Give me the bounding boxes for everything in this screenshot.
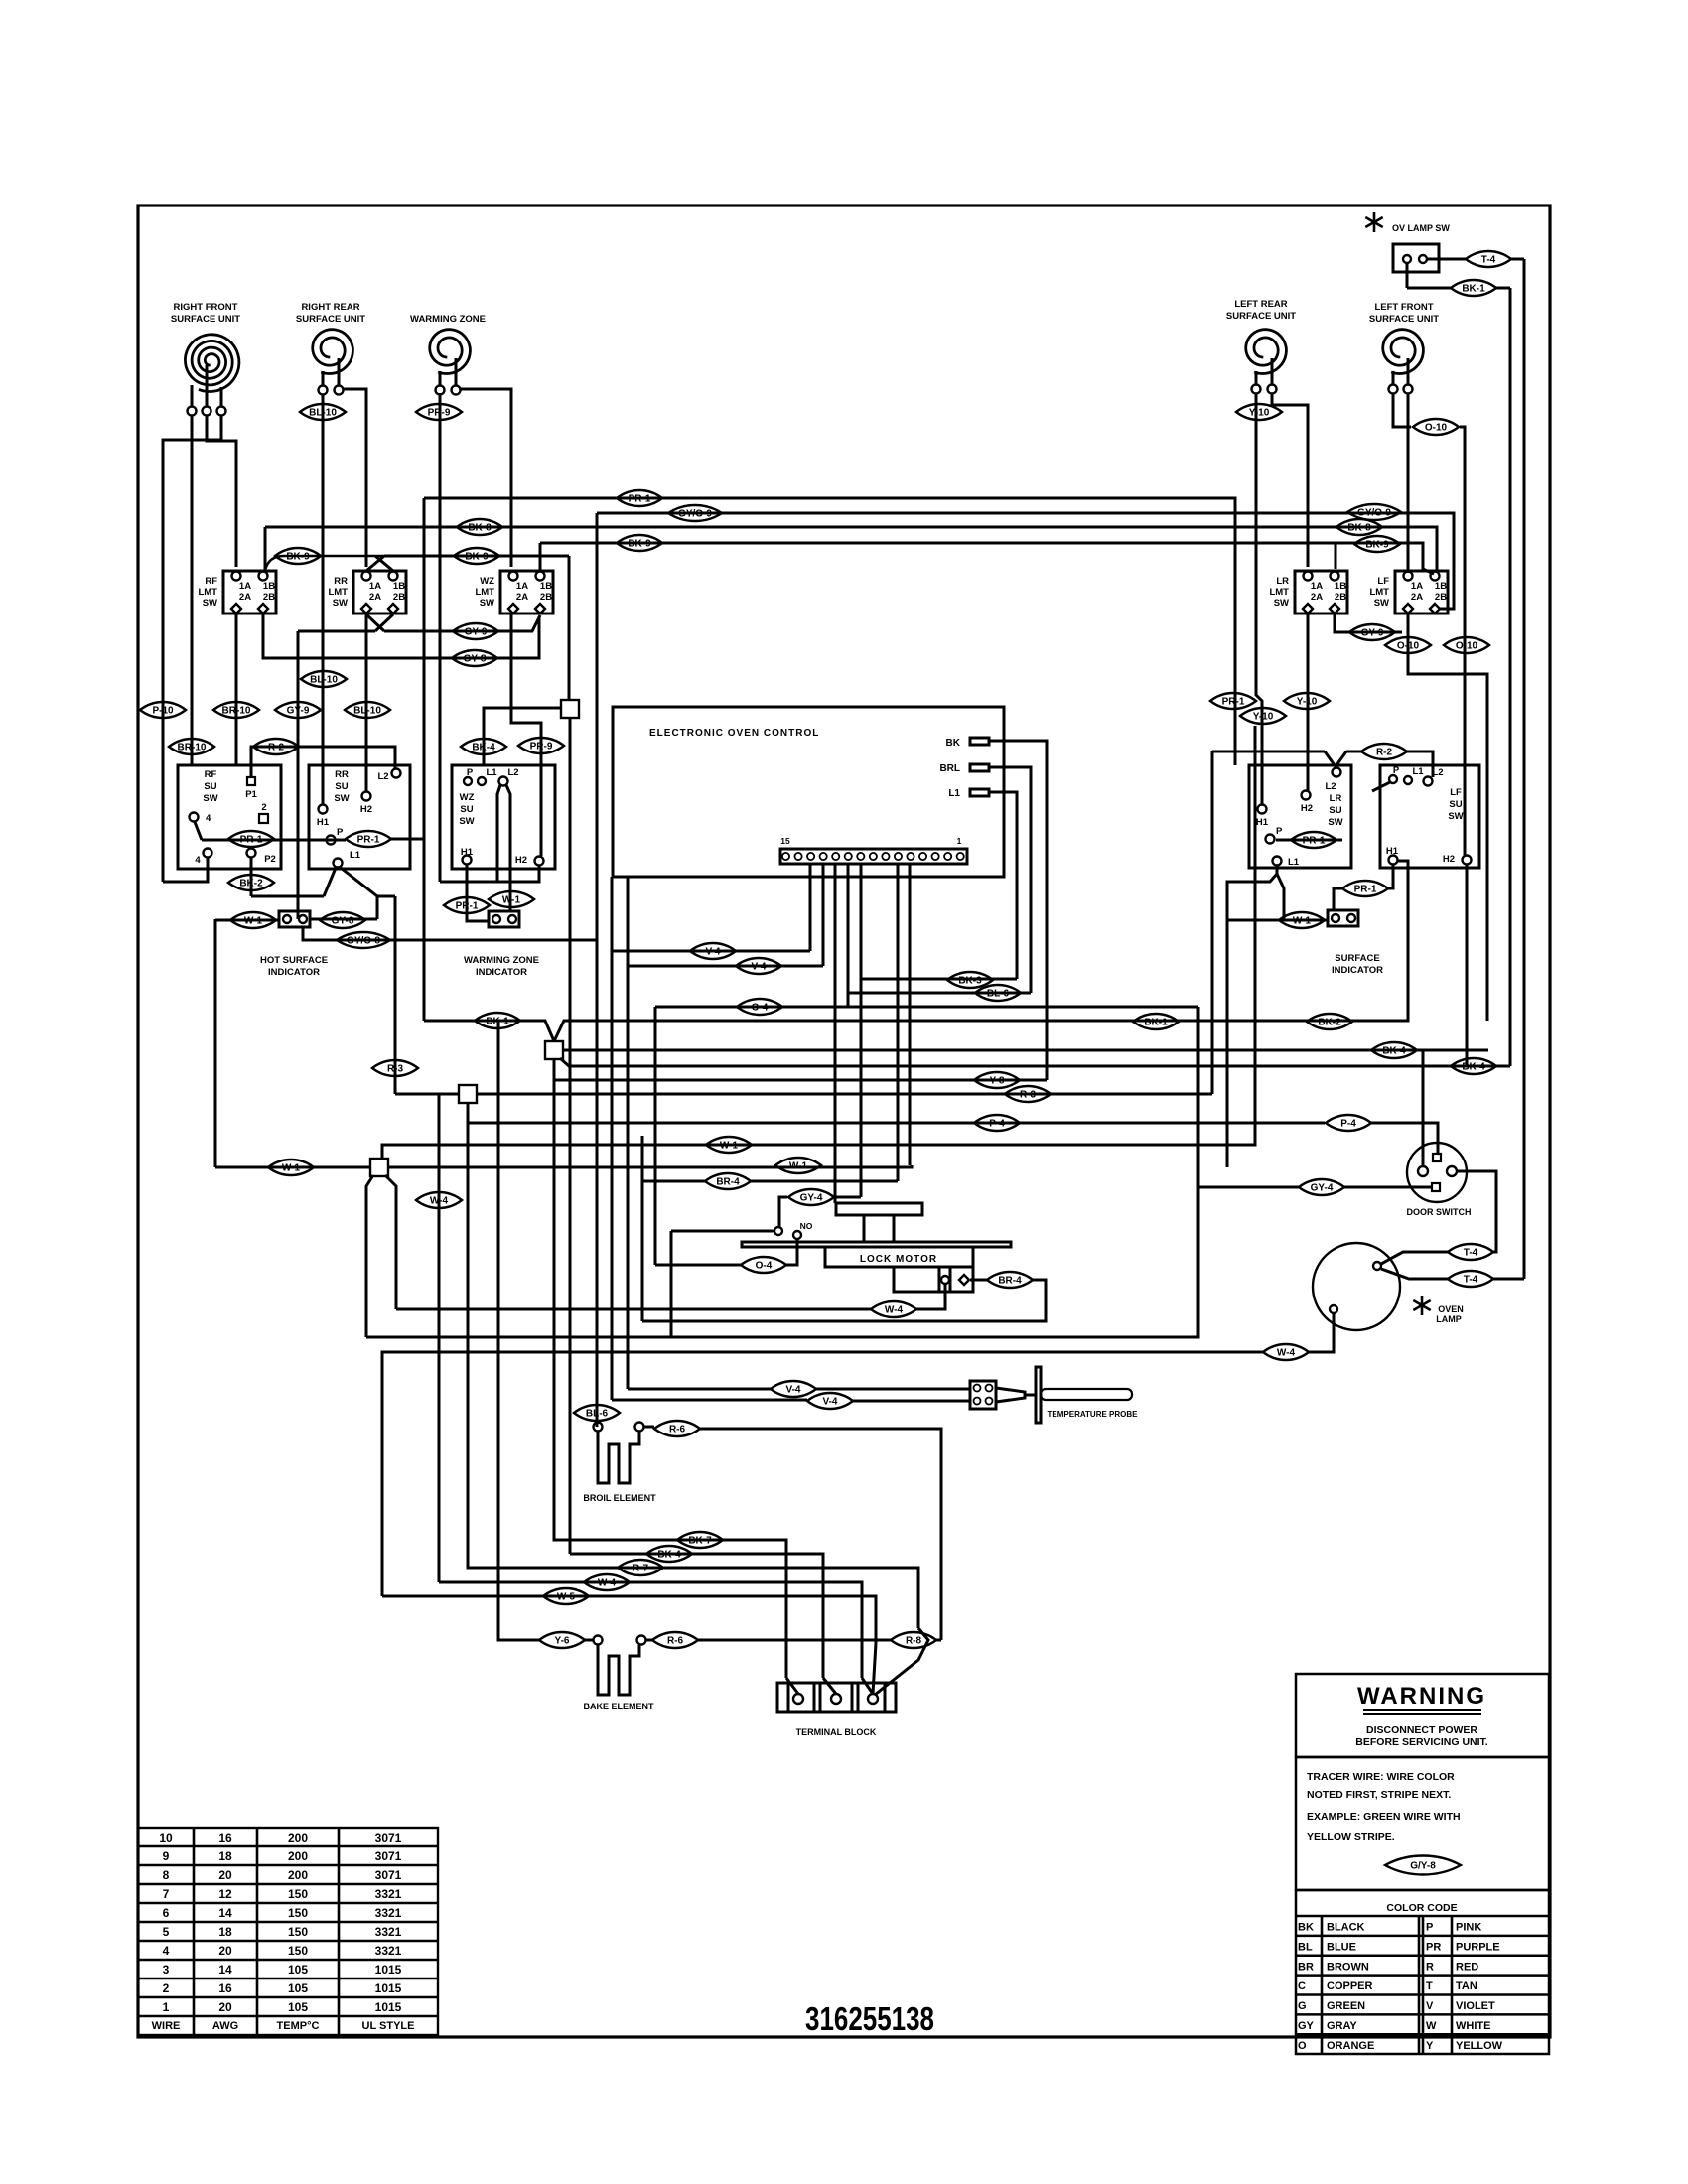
wire Y-6 row to bake element [498,1021,539,1640]
svg-text:BK-4: BK-4 [1462,1062,1485,1073]
svg-text:OVEN: OVEN [1438,1304,1464,1314]
switch OV LAMP SW [1373,212,1376,232]
svg-text:150: 150 [288,1887,308,1901]
wire W-1 to LF connector [1227,919,1328,922]
svg-text:T-4: T-4 [1464,1248,1478,1259]
bake element [598,1645,639,1695]
wire BR-10 lower label [169,739,214,754]
svg-text:BK: BK [946,738,961,749]
wire GY-9 between RR and WZ LMT [298,630,375,633]
svg-text:3321: 3321 [375,1906,402,1920]
svg-text:O: O [1298,2040,1307,2052]
svg-text:T-4: T-4 [1481,255,1496,266]
wire W-1 long row [215,1166,370,1169]
svg-text:L1: L1 [1288,857,1300,868]
svg-text:PR-1: PR-1 [629,494,651,505]
svg-text:W-1: W-1 [244,916,263,927]
svg-text:H2: H2 [360,804,372,815]
svg-text:NO: NO [800,1221,813,1231]
wire R-7 row [468,1103,918,1628]
svg-text:2B: 2B [1335,592,1346,603]
svg-text:BROWN: BROWN [1327,1961,1369,1973]
wire BK-1 row right [554,861,1408,1041]
svg-text:ORANGE: ORANGE [1327,2040,1374,2052]
svg-text:6: 6 [163,1906,170,1920]
svg-text:L2: L2 [1325,781,1336,792]
node junction C [459,1085,477,1103]
wire GY/O-9 long run [597,513,1454,609]
svg-text:COLOR CODE: COLOR CODE [1386,1902,1457,1914]
wire fork from WZ L2 [497,785,500,882]
svg-text:GY-9: GY-9 [287,706,310,717]
svg-text:R-6: R-6 [669,1425,686,1435]
svg-text:BL-6: BL-6 [987,989,1010,1000]
svg-text:COPPER: COPPER [1327,1980,1373,1992]
svg-text:1A: 1A [1411,581,1423,592]
svg-text:BK-7: BK-7 [688,1536,712,1547]
svg-text:AWG: AWG [212,2020,238,2032]
svg-text:SU: SU [335,781,348,792]
svg-text:SW: SW [334,793,349,804]
svg-text:BR: BR [1298,1961,1314,1973]
svg-text:150: 150 [288,1925,308,1939]
svg-text:GRAY: GRAY [1327,2020,1357,2032]
wire GY-4 row [835,1196,861,1199]
wire BK-9 run from RF LMT 1B [265,556,384,571]
svg-text:RIGHT REAR: RIGHT REAR [301,302,359,313]
wire BRL from EOC [989,767,1031,993]
svg-text:BL-10: BL-10 [310,675,338,686]
svg-text:GY/O-8: GY/O-8 [347,936,380,947]
svg-text:OV LAMP SW: OV LAMP SW [1392,223,1450,233]
svg-text:SU: SU [460,804,473,815]
svg-text:14: 14 [218,1963,232,1977]
svg-text:G/Y-8: G/Y-8 [1410,1861,1436,1872]
svg-text:P: P [1426,1922,1433,1934]
svg-text:WARMING ZONE: WARMING ZONE [464,955,539,966]
svg-text:P: P [337,827,344,838]
svg-text:P: P [467,767,474,778]
svg-text:P2: P2 [264,854,276,865]
svg-text:BLACK: BLACK [1327,1922,1365,1934]
svg-text:LEFT FRONT: LEFT FRONT [1374,302,1433,313]
svg-text:150: 150 [288,1944,308,1958]
svg-text:H1: H1 [1256,817,1269,828]
wire PR-9 label at WZ [518,738,564,753]
svg-text:BL-6: BL-6 [586,1409,609,1420]
svg-text:LR: LR [1330,793,1342,804]
svg-text:3321: 3321 [375,1944,402,1958]
wire BK from EOC [989,741,1047,1080]
svg-text:SW: SW [459,816,474,827]
svg-text:GY-8: GY-8 [332,916,354,927]
svg-text:L2: L2 [1432,767,1443,778]
svg-text:R-3: R-3 [1020,1090,1037,1101]
svg-text:10: 10 [159,1831,173,1844]
svg-text:1015: 1015 [375,1981,402,1995]
svg-text:W: W [1426,2020,1437,2032]
wire P-10 label [140,702,186,718]
svg-text:WZ: WZ [480,576,494,587]
wire V-4 columns down to probe rows [611,951,614,1400]
svg-text:W-5: W-5 [557,1592,576,1603]
wire from WZ LMT 2A to PR-9 column [511,614,541,856]
svg-text:20: 20 [218,2000,232,2014]
wire from RR unit right terminal to RR LMT 1A [343,389,366,567]
wire BK-4 to warming zone ind [461,739,506,754]
svg-text:BRL: BRL [939,763,960,774]
wire GY-4 long run via bottom [366,1187,1198,1337]
svg-text:BL-10: BL-10 [309,408,337,419]
svg-text:W-1: W-1 [1293,916,1312,927]
svg-text:BR-4: BR-4 [998,1276,1022,1287]
svg-text:LMT: LMT [1269,587,1289,598]
svg-text:2A: 2A [516,592,528,603]
wire W-1 to hot surface connector [215,919,279,922]
wire H1 H2 RR verticals [322,765,325,804]
svg-text:1A: 1A [369,581,381,592]
svg-text:P1: P1 [245,789,257,800]
svg-text:1B: 1B [1335,581,1346,592]
node junction A [568,556,571,701]
svg-text:SW: SW [1448,811,1463,822]
svg-text:UL STYLE: UL STYLE [362,2020,415,2032]
svg-text:9: 9 [163,1849,170,1863]
svg-text:BK-1: BK-1 [1144,1018,1168,1028]
switch WZ SU SW [452,765,555,869]
svg-text:DOOR SWITCH: DOOR SWITCH [1407,1207,1472,1217]
svg-text:LMT: LMT [1369,587,1389,598]
svg-text:O-10: O-10 [1456,641,1478,652]
wire BK-4 row lower [570,1554,823,1678]
svg-text:V: V [1426,2000,1434,2012]
wire T-4 from OV LAMP SW [1427,258,1466,261]
wire R-3 row [395,1093,459,1096]
svg-text:Y: Y [1426,2040,1434,2052]
svg-text:YELLOW STRIPE.: YELLOW STRIPE. [1307,1831,1395,1843]
wire GY-9 right between LR and LF LMT [1335,614,1402,632]
svg-text:3321: 3321 [375,1925,402,1939]
wire BL-10 from RR unit [322,394,325,804]
wire BK-2 from RF SU SW P2 [250,857,253,896]
svg-text:1015: 1015 [375,1963,402,1977]
svg-text:14: 14 [218,1906,232,1920]
svg-text:BL-10: BL-10 [353,706,381,717]
svg-text:BK-2: BK-2 [239,879,263,889]
wire crossing at RR LMT SW top [375,556,393,571]
svg-text:BK-4: BK-4 [1382,1046,1406,1057]
svg-text:LR: LR [1276,576,1289,587]
svg-text:BROIL ELEMENT: BROIL ELEMENT [583,1493,656,1503]
svg-text:4: 4 [195,855,201,866]
svg-text:L1: L1 [486,767,497,778]
svg-text:T: T [1426,1980,1433,1992]
svg-text:V-4: V-4 [822,1397,837,1408]
svg-text:RED: RED [1456,1961,1478,1973]
svg-text:RR: RR [334,576,348,587]
svg-text:PR-1: PR-1 [1222,697,1245,708]
svg-text:8: 8 [163,1868,170,1882]
lock motor switch [774,1227,782,1235]
wire V-4 row 2 [628,877,823,966]
svg-text:BK-9: BK-9 [628,539,651,550]
wire T-4 lower [1448,1271,1493,1287]
svg-text:WZ: WZ [460,792,475,803]
svg-text:Y-6: Y-6 [554,1636,569,1647]
wire V-4 rows to temperature probe [628,1388,771,1391]
svg-text:2A: 2A [239,592,251,603]
svg-text:BL: BL [1298,1941,1313,1953]
wire W-4 from oven lamp [1309,1313,1334,1352]
switch LR SU SW [1249,765,1351,868]
svg-text:SU: SU [1329,805,1341,816]
svg-text:O-10: O-10 [1397,641,1420,652]
svg-text:4: 4 [163,1944,170,1958]
svg-text:SU: SU [204,781,216,792]
svg-text:1A: 1A [239,581,251,592]
svg-text:L1: L1 [1412,766,1424,777]
svg-text:P-4: P-4 [1340,1119,1356,1130]
svg-text:1A: 1A [516,581,528,592]
lock motor [836,1203,922,1215]
limit switch LR LMT SW [1295,571,1347,614]
wire W-5 row [382,1596,876,1643]
svg-text:V-4: V-4 [751,962,766,973]
svg-text:P: P [1393,765,1400,776]
wire PR-1 from LR P [1276,839,1342,842]
svg-text:BK-9: BK-9 [1365,540,1389,551]
svg-text:TERMINAL BLOCK: TERMINAL BLOCK [796,1727,877,1737]
wire BK-4 row to door switch [563,1049,1488,1052]
svg-text:105: 105 [288,2000,308,2014]
wire BL-6 to broil element [574,1405,620,1421]
svg-text:PR-1: PR-1 [357,835,380,846]
svg-text:R-2: R-2 [268,743,285,753]
svg-text:C: C [1298,1980,1306,1992]
svg-text:TEMPERATURE PROBE: TEMPERATURE PROBE [1048,1410,1139,1419]
svg-text:GREEN: GREEN [1327,2000,1365,2012]
svg-text:GY/O-9: GY/O-9 [1357,508,1391,519]
wire to lock switch common [671,1230,774,1233]
svg-text:2B: 2B [263,592,275,603]
svg-text:1B: 1B [263,581,275,592]
wire R-3 vertical from RR SU [394,896,397,1094]
svg-text:L2: L2 [377,771,388,782]
svg-text:GY-4: GY-4 [1311,1183,1334,1194]
svg-text:BK-2: BK-2 [1318,1018,1341,1028]
wire BK-7 row [554,1059,786,1678]
svg-text:GY-8: GY-8 [464,654,487,665]
svg-text:3: 3 [163,1963,170,1977]
wire R-2 right run [1212,751,1325,753]
svg-text:VIOLET: VIOLET [1456,2000,1495,2012]
svg-text:105: 105 [288,1981,308,1995]
svg-text:2: 2 [261,802,266,813]
wire from LF SU H2 down [1466,865,1469,1066]
svg-text:PR-1: PR-1 [240,835,263,846]
svg-text:BK-8: BK-8 [468,523,492,534]
svg-text:NOTED FIRST, STRIPE NEXT.: NOTED FIRST, STRIPE NEXT. [1307,1789,1451,1801]
svg-text:GY: GY [1298,2020,1315,2032]
node junction D [370,1159,388,1176]
wire from WZ unit right terminal to WZ LMT 1A [460,389,511,567]
wire PR-1 long run [424,498,1235,765]
wire L1 from EOC [989,792,1017,979]
svg-text:W-4: W-4 [1277,1348,1296,1359]
broil element [598,1432,639,1483]
svg-text:WARNING: WARNING [1357,1683,1486,1709]
wire from WZ H2 down to fork [440,865,539,882]
svg-text:R-8: R-8 [906,1636,922,1647]
node junction B [545,1041,563,1059]
svg-text:YELLOW: YELLOW [1456,2040,1503,2052]
svg-text:2B: 2B [1435,592,1447,603]
svg-text:SURFACE: SURFACE [1335,953,1379,964]
svg-text:7: 7 [163,1887,170,1901]
svg-text:V-4: V-4 [705,947,720,958]
wire W-4 row lower [439,1582,862,1678]
svg-text:Y-10: Y-10 [1253,712,1274,723]
indicator lamp connector WZ [489,911,519,927]
svg-text:LF: LF [1377,576,1389,587]
svg-text:INDICATOR: INDICATOR [476,967,527,978]
svg-text:BR-4: BR-4 [716,1177,740,1188]
svg-text:W-1: W-1 [720,1141,739,1152]
wire O-10 from LF unit left terminal to LF SU H2 [1393,393,1411,427]
wire R-2 from P1 [251,747,395,777]
svg-text:5: 5 [163,1925,170,1939]
svg-text:12: 12 [218,1887,232,1901]
svg-text:PR-1: PR-1 [1354,885,1377,895]
svg-text:BAKE ELEMENT: BAKE ELEMENT [583,1702,654,1711]
svg-text:BLUE: BLUE [1327,1941,1356,1953]
wire PR-1 from RF SU SW [202,839,346,842]
warning box [1296,1674,1549,1757]
wire BK-1 row left [424,1021,554,1041]
wire BR-4 from lock motor [970,1279,987,1282]
svg-text:PINK: PINK [1456,1922,1481,1934]
svg-text:200: 200 [288,1868,308,1882]
svg-text:W-1: W-1 [502,895,521,906]
svg-text:TAN: TAN [1456,1980,1477,1992]
svg-text:SURFACE UNIT: SURFACE UNIT [1226,311,1296,322]
svg-text:SURFACE UNIT: SURFACE UNIT [296,314,365,325]
limit switch RR LMT SW [353,571,406,614]
wire O-10 under LF LMT 2A [1408,614,1487,1021]
svg-text:16: 16 [218,1831,232,1844]
svg-text:2: 2 [163,1981,170,1995]
wire GY-8 from hot surface connector [310,918,377,921]
svg-text:Y-10: Y-10 [1249,408,1270,419]
svg-text:H1: H1 [461,847,474,858]
svg-text:3071: 3071 [375,1868,402,1882]
terminal block [777,1683,896,1712]
svg-text:R-2: R-2 [1376,748,1393,758]
svg-text:W-4: W-4 [598,1578,617,1589]
svg-text:BR-10: BR-10 [222,706,251,717]
svg-text:O-4: O-4 [756,1261,773,1272]
wire BL-6 row [848,992,1031,995]
svg-text:H2: H2 [1301,803,1313,814]
svg-text:EXAMPLE: GREEN WIRE WITH: EXAMPLE: GREEN WIRE WITH [1307,1811,1461,1823]
wire PR-9 from WZ unit [439,393,442,882]
wire P-4 row [468,1103,1325,1123]
svg-text:BK-9: BK-9 [465,552,489,563]
switch RF SU SW [178,765,281,869]
svg-text:Y-10: Y-10 [1297,697,1318,708]
svg-text:H2: H2 [1443,854,1455,865]
svg-text:316255138: 316255138 [805,2000,934,2037]
wire PR-1 from WZ H1 [466,865,469,913]
svg-text:ELECTRONIC OVEN CONTROL: ELECTRONIC OVEN CONTROL [649,728,819,739]
svg-text:SW: SW [203,598,217,609]
wire GY-9 label [275,702,321,718]
wire GY-4 to door switch [1198,1186,1299,1189]
svg-text:3071: 3071 [375,1849,402,1863]
wire from LF unit right terminal to LF LMT [1407,393,1410,573]
wire BK-1 from OV LAMP SW [1406,263,1409,288]
svg-text:L1: L1 [350,850,361,861]
svg-text:2A: 2A [369,592,381,603]
svg-text:O-10: O-10 [1425,423,1448,434]
wire BR-4 row [642,1180,705,1183]
wire from RR LMT 2A down to RR SU H2 [365,614,368,791]
wire BR-10 label [213,702,259,718]
svg-text:LEFT REAR: LEFT REAR [1234,299,1287,310]
wire W-1 upper row to LR [382,726,1255,1159]
svg-text:2B: 2B [393,592,405,603]
svg-text:G: G [1298,2000,1307,2012]
svg-text:LMT: LMT [198,587,217,598]
svg-text:HOT SURFACE: HOT SURFACE [260,955,328,966]
svg-text:R-3: R-3 [387,1064,404,1075]
svg-text:P-10: P-10 [152,706,174,717]
svg-text:3071: 3071 [375,1831,402,1844]
svg-text:WHITE: WHITE [1456,2020,1490,2032]
svg-text:SU: SU [1449,799,1462,810]
svg-text:SW: SW [1328,817,1342,828]
svg-text:LF: LF [1450,787,1462,798]
wire from LF H1 down [1388,865,1393,888]
wires from EOC pin strip [809,864,812,951]
svg-text:R: R [1426,1961,1434,1973]
svg-text:RF: RF [205,769,217,780]
svg-text:PR: PR [1426,1941,1441,1953]
svg-text:W-1: W-1 [282,1163,301,1174]
svg-text:SURFACE UNIT: SURFACE UNIT [171,314,240,325]
svg-text:H1: H1 [317,817,330,828]
wire W-4 column with label [438,1094,441,1582]
svg-text:PR-1: PR-1 [1303,836,1326,847]
svg-text:BK: BK [1298,1922,1314,1934]
svg-text:18: 18 [218,1849,232,1863]
svg-text:Y-8: Y-8 [989,1076,1004,1087]
tracer wire note box [1296,1757,1549,1890]
svg-text:W-1: W-1 [789,1161,808,1172]
wire R-6 at bake element [637,1636,646,1645]
electronic oven control box [613,707,1004,877]
svg-text:H1: H1 [1386,846,1399,857]
page border frame [138,205,1550,2037]
svg-text:DISCONNECT POWER: DISCONNECT POWER [1366,1724,1477,1736]
svg-text:PR-9: PR-9 [428,408,451,419]
wire V-4 row 1 [612,877,810,951]
temperature probe [970,1381,996,1409]
svg-text:W-4: W-4 [430,1196,449,1207]
svg-text:RF: RF [205,576,217,587]
wire O-4 from lock switch NO [786,1239,797,1265]
svg-text:105: 105 [288,1963,308,1977]
